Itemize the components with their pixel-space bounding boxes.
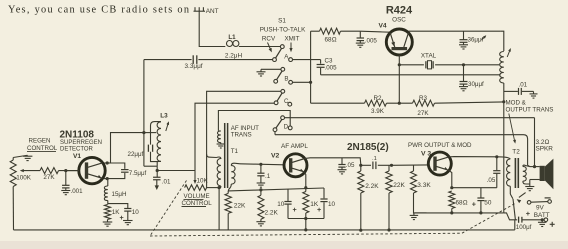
label batt plus	[526, 209, 531, 218]
resistor 68ohm out	[449, 191, 455, 214]
label CONTROL regen	[27, 145, 58, 152]
wire RCV line	[144, 59, 273, 61]
arrow XMIT	[289, 43, 292, 53]
junction dot .1	[259, 163, 262, 166]
speaker 3.2 ohm	[540, 159, 554, 190]
svg-text:+: +	[317, 205, 321, 214]
svg-text:2.2K: 2.2K	[365, 183, 379, 190]
resistor 1K det	[105, 205, 111, 220]
switch S1 pole D	[273, 116, 292, 132]
ground B pivot	[257, 69, 266, 76]
capacitor 10 V2	[317, 188, 336, 219]
wire bottom bus	[14, 220, 515, 230]
label BATT	[534, 212, 550, 219]
label 2.2K drv	[365, 183, 379, 190]
label L1	[228, 34, 236, 41]
wire D lower to ground	[528, 165, 530, 166]
label 100K	[16, 174, 32, 181]
capacitor .1	[257, 164, 271, 187]
wire R3 to mod node	[435, 102, 504, 103]
ground regen	[23, 155, 32, 160]
wire B contact to node	[293, 81, 311, 83]
wire to V3 base	[392, 164, 429, 166]
wire spkr bottom	[530, 180, 540, 185]
label R2	[373, 95, 382, 102]
capacitor 10 det	[108, 204, 140, 225]
svg-text:10: 10	[132, 209, 140, 216]
wire T1 aux to D	[218, 111, 290, 131]
label 2.2uH	[225, 53, 243, 60]
label T1	[231, 148, 239, 155]
wire spkr top	[530, 118, 540, 169]
ground battery	[538, 220, 547, 227]
transistor V4	[386, 29, 412, 55]
label T2	[512, 149, 520, 156]
svg-text:10: 10	[328, 201, 336, 208]
wire T1 sec to V2	[236, 163, 284, 165]
label L3	[160, 113, 168, 120]
svg-text:R424: R424	[386, 5, 413, 17]
transformer T2 primary	[507, 159, 511, 194]
junction xtal right	[462, 63, 465, 66]
svg-text:50: 50	[484, 200, 492, 207]
svg-text:.1: .1	[372, 156, 377, 162]
switch S1 pole A	[273, 45, 293, 62]
label PWR OUTPUT MOD	[408, 142, 472, 149]
capacitor 36uuf	[459, 31, 484, 49]
wire V2 lower rail	[288, 213, 324, 231]
capacitor .001	[61, 171, 83, 195]
resistor 3.3K	[411, 165, 427, 213]
switch S1 pole B	[274, 67, 293, 84]
junction mod node	[502, 100, 505, 103]
wire T1 primary top	[207, 154, 217, 157]
resistor 27K	[40, 168, 59, 174]
capacitor C3 .005	[317, 58, 338, 75]
wire B pivot to ground	[261, 68, 281, 70]
label 1K V2	[310, 201, 319, 208]
capacitor .01 osc	[504, 82, 538, 99]
capacitor 100uf	[516, 217, 544, 231]
plus mark right	[550, 222, 555, 227]
svg-text:R2: R2	[373, 95, 382, 102]
wire A to C3	[293, 59, 321, 61]
svg-text:.01: .01	[162, 178, 171, 185]
svg-text:.05: .05	[487, 177, 496, 184]
label R424	[386, 5, 413, 17]
junction B node	[309, 81, 312, 84]
resistor R3 27K	[413, 100, 435, 106]
resistor 22K input	[225, 191, 231, 230]
svg-text:MOD &: MOD &	[506, 99, 527, 106]
junction 2.2K	[259, 188, 262, 191]
junction 1K V2	[304, 186, 307, 189]
svg-text:15μH: 15μH	[112, 191, 127, 198]
capacitor .005 osc	[356, 31, 378, 47]
svg-text:S1: S1	[278, 18, 286, 25]
svg-text:.1: .1	[265, 173, 271, 180]
svg-text:.05: .05	[346, 162, 355, 169]
capacitor .05 out	[452, 157, 501, 188]
svg-text:9V: 9V	[536, 204, 545, 211]
wire 68ohm to V4	[341, 31, 390, 32]
svg-text:OSC: OSC	[392, 17, 406, 24]
svg-text:68Ω: 68Ω	[456, 200, 468, 207]
capacitor 22uuf	[148, 145, 152, 152]
svg-text:TRANS: TRANS	[231, 132, 252, 139]
capacitor 30uuf	[459, 65, 484, 91]
wire V2 collector	[305, 158, 361, 165]
label 1K det	[112, 209, 121, 216]
junction tank bottom	[156, 169, 159, 172]
svg-text:L1: L1	[228, 34, 236, 41]
junction V3 line left	[359, 164, 362, 167]
ground 3.3K	[410, 213, 419, 220]
label 3.3uuf	[185, 63, 203, 70]
label SUPERREGEN	[60, 140, 102, 146]
wire switch to batt	[531, 201, 548, 204]
svg-text:REGEN: REGEN	[29, 138, 51, 145]
label AF INPUT TRANS	[231, 125, 259, 139]
svg-text:D: D	[284, 123, 289, 130]
wiper arrow 10K	[193, 180, 196, 184]
svg-text:T2: T2	[512, 149, 520, 156]
resistor 22K drv	[386, 165, 392, 231]
svg-text:22μμf: 22μμf	[128, 151, 144, 158]
svg-text:CONTROL: CONTROL	[27, 145, 58, 152]
svg-text:+: +	[526, 209, 531, 218]
svg-text:27K: 27K	[43, 174, 55, 181]
junction emitter 68	[450, 186, 453, 189]
label XTAL	[421, 52, 437, 59]
wire V3 to T2	[497, 157, 511, 159]
transformer T1 secondary	[228, 163, 235, 191]
dashed link switch	[462, 203, 516, 233]
label 3.9K	[371, 108, 385, 115]
inductor L3	[151, 121, 170, 166]
svg-text:.005: .005	[365, 37, 378, 44]
wire R2 left	[311, 102, 365, 104]
svg-text:10K: 10K	[197, 178, 209, 185]
ground 1K det	[103, 220, 113, 227]
transformer T2 secondary	[523, 165, 530, 184]
transformer T2 core	[515, 158, 518, 188]
antenna ANT	[194, 7, 219, 15]
label 10K	[197, 178, 209, 185]
svg-text:L3: L3	[160, 113, 168, 120]
transistor V1	[79, 157, 105, 183]
junction .05 out	[495, 155, 498, 158]
label V2	[271, 152, 280, 159]
switch power	[510, 193, 531, 205]
label VOLUME	[184, 193, 210, 200]
wire det to wiper	[157, 170, 195, 172]
dashed link bottom	[150, 233, 462, 236]
junction base R2R3	[398, 102, 401, 105]
svg-text:.01: .01	[519, 82, 528, 89]
label RCV	[262, 36, 276, 43]
label 3.2ohm	[536, 139, 550, 146]
wire V2 emitter rail	[228, 188, 324, 191]
capacitor .05 V2	[338, 158, 355, 174]
inductor L1	[227, 41, 282, 47]
label 15uH	[112, 191, 127, 198]
junction pot T1	[218, 186, 221, 189]
svg-text:RCV: RCV	[262, 36, 276, 43]
svg-text:T1: T1	[231, 148, 239, 155]
wire regen top	[13, 155, 27, 160]
potentiometer 10K	[185, 185, 220, 191]
svg-text:V4: V4	[378, 23, 386, 30]
label 68ohm out	[456, 200, 468, 207]
svg-text:DETECTOR: DETECTOR	[60, 146, 94, 152]
battery minus terminal	[545, 198, 552, 203]
svg-text:27K: 27K	[417, 110, 429, 117]
junction V1 base	[64, 169, 67, 172]
resistor 2.2K input	[258, 190, 264, 219]
label MOD OUTPUT TRANS	[506, 99, 554, 113]
capacitor 10 input	[277, 189, 296, 219]
inductor osc tank	[500, 31, 511, 102]
junction V4 base xtal	[398, 63, 401, 66]
wire D pivot bus	[285, 117, 535, 119]
wire switch drop	[504, 199, 517, 220]
svg-text:PWR OUTPUT & MOD: PWR OUTPUT & MOD	[408, 142, 472, 149]
wire mod drop	[503, 102, 505, 213]
wire V2 emitter	[304, 172, 305, 188]
svg-text:2N185(2): 2N185(2)	[347, 142, 389, 153]
label 3.3K	[417, 182, 431, 189]
label PUSH-TO-TALK	[260, 26, 306, 33]
svg-text:36μμf: 36μμf	[468, 37, 484, 44]
label V4	[378, 23, 386, 30]
svg-text:100μf: 100μf	[516, 224, 532, 231]
wire V3 collector top	[449, 156, 497, 158]
wire tank tap link	[144, 132, 156, 134]
junction tank tap	[142, 131, 145, 134]
label 2N185	[347, 142, 389, 153]
svg-text:2.2μH: 2.2μH	[225, 53, 243, 60]
svg-text:XMIT: XMIT	[284, 36, 299, 43]
wire C pivot to T1	[207, 91, 281, 188]
svg-text:68Ω: 68Ω	[324, 36, 336, 43]
svg-text:.001: .001	[71, 188, 84, 195]
svg-text:SUPERREGEN: SUPERREGEN	[60, 140, 102, 146]
svg-text:2N1108: 2N1108	[60, 129, 95, 140]
leader to T2	[509, 114, 516, 144]
label OSC	[392, 17, 406, 24]
transistor V3	[428, 152, 451, 175]
label 22uuf	[128, 151, 144, 158]
wire out rail	[415, 211, 504, 214]
capacitor 7.5uuf	[104, 163, 146, 180]
svg-text:SPKR: SPKR	[536, 146, 554, 153]
svg-text:+: +	[472, 199, 476, 208]
wiper arrow 100K	[20, 169, 40, 172]
ground speaker	[525, 184, 534, 191]
label 22K input	[234, 203, 246, 210]
label 22K drv	[393, 182, 405, 189]
transformer T1 primary	[217, 157, 221, 188]
wire V4 base	[398, 55, 400, 103]
label REGEN	[29, 138, 51, 145]
svg-text:3.3K: 3.3K	[417, 182, 431, 189]
label V3	[421, 151, 431, 158]
svg-text:2.2K: 2.2K	[265, 210, 279, 217]
label 27K regen	[43, 174, 55, 181]
svg-text:CONTROL: CONTROL	[182, 200, 213, 207]
svg-text:B: B	[284, 76, 288, 83]
wire V4 collector	[408, 31, 500, 40]
wire XMIT B+ riser	[310, 31, 312, 103]
transformer T1 core	[225, 123, 228, 188]
battery plus terminal	[544, 218, 548, 222]
svg-text:+: +	[120, 213, 124, 222]
svg-text:30μμf: 30μμf	[468, 81, 484, 88]
svg-text:22K: 22K	[234, 203, 246, 210]
svg-text:+: +	[293, 205, 297, 214]
label 2.2K input	[265, 210, 279, 217]
wire D lower bus	[275, 135, 528, 166]
dashed link volume	[150, 181, 187, 237]
svg-text:7.5μμf: 7.5μμf	[129, 170, 147, 177]
arrow RCV	[268, 43, 272, 53]
wire V3 emitter	[449, 170, 452, 187]
potentiometer 100K	[10, 160, 16, 187]
wire D left contact drop	[274, 132, 276, 135]
wire R2 R3 link	[387, 102, 413, 104]
svg-text:XTAL: XTAL	[421, 52, 437, 59]
capacitor .1 coupling	[361, 156, 392, 169]
resistor R2 3.9K	[365, 100, 387, 106]
svg-text:AF AMPL: AF AMPL	[281, 143, 308, 150]
label V1	[73, 153, 81, 160]
capacitor 3.3uuf	[193, 55, 197, 64]
svg-text:3.9K: 3.9K	[371, 108, 385, 115]
svg-text:C: C	[284, 98, 289, 105]
wire C3 to coil tap	[321, 74, 501, 76]
wire V1 base	[66, 170, 79, 172]
wire 100K bottom	[12, 187, 14, 230]
svg-text:OUTPUT TRANS: OUTPUT TRANS	[506, 106, 554, 113]
svg-text:V2: V2	[271, 152, 280, 159]
label S1	[278, 18, 286, 25]
ground 2.2K input	[256, 219, 265, 226]
wire C contact to wiper	[195, 103, 274, 180]
wire antenna lead	[199, 11, 225, 46]
svg-text:ANT: ANT	[206, 8, 219, 15]
transformer T1 aux coil	[217, 131, 225, 148]
label 2N1108	[60, 129, 95, 140]
wire 27K to V1	[59, 170, 79, 172]
svg-text:3.3μμf: 3.3μμf	[185, 63, 203, 70]
label XMIT	[284, 36, 299, 43]
wire B+ top	[311, 30, 320, 32]
resistor 68ohm	[320, 28, 341, 34]
svg-text:22K: 22K	[393, 182, 405, 189]
junction V3 line right	[390, 164, 393, 167]
svg-text:10: 10	[277, 201, 285, 208]
svg-text:PUSH-TO-TALK: PUSH-TO-TALK	[260, 26, 306, 33]
caption text	[8, 4, 189, 15]
wire tank riser	[144, 60, 157, 167]
wire T1 primary bottom drop	[218, 188, 220, 230]
wire V1 collector	[104, 133, 144, 165]
label AF AMPL	[281, 143, 308, 150]
svg-text:100K: 100K	[16, 174, 32, 181]
label 9V	[536, 204, 545, 211]
svg-text:.005: .005	[325, 64, 338, 71]
resistor 2.2K drv	[358, 165, 364, 231]
label R3	[419, 95, 428, 102]
label 27K	[417, 110, 429, 117]
svg-text:Yes, you can use CB radio sets: Yes, you can use CB radio sets on	[8, 4, 189, 15]
capacitor 50	[472, 188, 492, 213]
label SPKR	[536, 146, 554, 153]
resistor 1K V2	[303, 188, 309, 213]
label 68ohm	[324, 36, 336, 43]
svg-text:VOLUME: VOLUME	[184, 193, 210, 200]
svg-text:V1: V1	[73, 153, 81, 160]
label CONTROL vol	[182, 200, 213, 207]
inductor 15uH	[104, 179, 108, 205]
crystal XTAL	[399, 61, 499, 69]
label DETECTOR	[60, 146, 94, 152]
transistor V2	[284, 154, 307, 177]
switch S1 pole C	[274, 89, 291, 106]
svg-text:R3: R3	[419, 95, 428, 102]
capacitor .01 det	[153, 166, 171, 190]
